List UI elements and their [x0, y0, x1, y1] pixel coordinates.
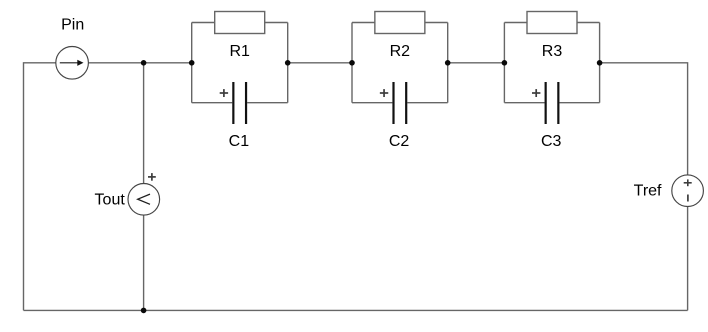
svg-text:C3: C3 — [541, 133, 562, 150]
node R3 right — [597, 60, 603, 66]
svg-text:Pin: Pin — [61, 17, 84, 34]
wire R2 block to R3 block — [448, 62, 505, 64]
wire R1 block to R2 block — [288, 62, 352, 64]
wire top rail right with corner — [600, 63, 688, 175]
wire resistor R2 left stub — [352, 22, 375, 24]
wire resistor R3 right stub — [577, 22, 600, 24]
node Tout bottom — [141, 308, 147, 314]
wire capacitor C1 right lead — [247, 102, 288, 104]
capacitor C3 polarity plus — [532, 89, 540, 97]
wire left rail — [24, 63, 56, 311]
capacitor C1 plates — [233, 82, 246, 124]
wire block 1 right vertical — [287, 23, 289, 103]
wire bottom rail — [24, 309, 688, 311]
node R1 right — [285, 60, 291, 66]
wire Tout node to R1 block — [144, 62, 192, 64]
wire capacitor C1 left lead — [192, 102, 233, 104]
svg-text:R2: R2 — [390, 43, 411, 60]
wire resistor R3 left stub — [504, 22, 527, 24]
node R1 left — [189, 60, 195, 66]
wire block 2 left vertical — [351, 23, 353, 103]
wire block 2 right vertical — [447, 23, 449, 103]
svg-text:Tout: Tout — [95, 191, 126, 208]
capacitor C1 polarity plus — [220, 89, 228, 97]
wire capacitor C3 left lead — [504, 102, 544, 104]
resistor R1 body — [215, 12, 265, 34]
svg-text:C2: C2 — [389, 133, 410, 150]
resistor R3 body — [527, 12, 577, 34]
wire resistor R1 left stub — [192, 22, 215, 24]
node Tout top — [141, 60, 147, 66]
svg-text:R1: R1 — [229, 43, 250, 60]
voltage source Tref — [672, 175, 704, 207]
svg-text:C1: C1 — [229, 133, 250, 150]
wire resistor R1 right stub — [265, 22, 288, 24]
capacitor C3 plates — [546, 82, 559, 124]
wire capacitor C2 right lead — [407, 102, 447, 104]
capacitor C2 plates — [394, 82, 407, 124]
resistor R2 body — [375, 12, 425, 34]
wire capacitor C3 right lead — [559, 102, 599, 104]
svg-text:R3: R3 — [542, 43, 563, 60]
wire block 3 right vertical — [599, 23, 601, 103]
node R3 left — [502, 60, 508, 66]
wire right rail bottom — [687, 207, 689, 311]
wire resistor R2 right stub — [425, 22, 448, 24]
Tout polarity plus — [148, 173, 156, 181]
voltage source Tout — [128, 184, 160, 216]
wire Pin to Tout node — [88, 62, 143, 64]
wire Tout branch top — [143, 63, 145, 184]
node R2 right — [445, 60, 451, 66]
capacitor C2 polarity plus — [380, 89, 388, 97]
node R2 left — [349, 60, 355, 66]
wire block 3 left vertical — [503, 23, 505, 103]
wire capacitor C2 left lead — [352, 102, 392, 104]
wire Tout branch bottom — [143, 215, 145, 310]
wire block 1 left vertical — [191, 23, 193, 103]
current source Pin — [56, 47, 89, 80]
svg-text:Tref: Tref — [634, 182, 662, 199]
